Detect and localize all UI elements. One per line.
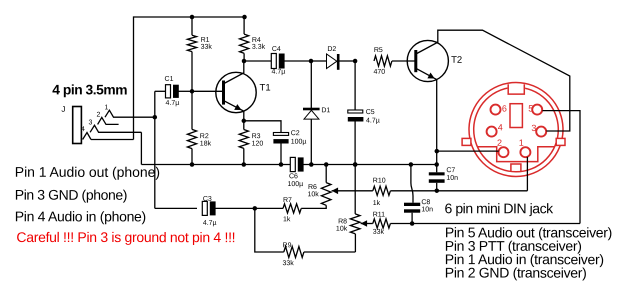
svg-text:C6: C6 bbox=[289, 173, 298, 180]
svg-text:R10: R10 bbox=[373, 178, 386, 185]
svg-text:120: 120 bbox=[252, 141, 264, 148]
svg-text:D1: D1 bbox=[321, 107, 330, 114]
svg-text:R5: R5 bbox=[374, 47, 383, 54]
svg-text:4.7µ: 4.7µ bbox=[366, 118, 380, 125]
svg-text:R9: R9 bbox=[283, 242, 292, 249]
svg-text:Careful !!! Pin 3 is ground no: Careful !!! Pin 3 is ground not pin 4 !!… bbox=[16, 229, 235, 245]
svg-text:Pin 1 Audio out (phone): Pin 1 Audio out (phone) bbox=[15, 164, 160, 180]
svg-text:J: J bbox=[61, 105, 65, 114]
svg-text:100µ: 100µ bbox=[287, 181, 303, 188]
svg-text:4: 4 bbox=[81, 126, 85, 133]
svg-text:1: 1 bbox=[105, 104, 109, 111]
svg-text:C8: C8 bbox=[421, 199, 430, 206]
svg-text:1: 1 bbox=[519, 138, 524, 148]
svg-text:Pin 3 GND (phone): Pin 3 GND (phone) bbox=[15, 187, 127, 203]
svg-text:1k: 1k bbox=[283, 216, 291, 223]
svg-text:33k: 33k bbox=[373, 229, 385, 236]
svg-text:Pin 2 GND (transceiver): Pin 2 GND (transceiver) bbox=[445, 265, 587, 281]
svg-text:T1: T1 bbox=[260, 82, 271, 93]
svg-text:10n: 10n bbox=[421, 206, 433, 213]
svg-text:C2: C2 bbox=[291, 130, 300, 137]
svg-text:2: 2 bbox=[97, 112, 101, 119]
svg-text:33k: 33k bbox=[201, 44, 213, 51]
svg-text:R11: R11 bbox=[373, 211, 385, 218]
svg-text:6 pin mini DIN jack: 6 pin mini DIN jack bbox=[445, 200, 555, 216]
svg-text:D2: D2 bbox=[327, 46, 336, 53]
svg-text:1k: 1k bbox=[373, 200, 381, 207]
svg-text:3: 3 bbox=[89, 119, 93, 126]
svg-text:C3: C3 bbox=[203, 196, 212, 203]
svg-text:18k: 18k bbox=[200, 141, 212, 148]
svg-text:4.7µ: 4.7µ bbox=[203, 220, 217, 227]
svg-text:6: 6 bbox=[502, 103, 507, 113]
svg-text:R3: R3 bbox=[252, 133, 261, 140]
svg-text:5: 5 bbox=[528, 103, 533, 113]
svg-text:3.3k: 3.3k bbox=[252, 44, 266, 51]
svg-text:10k: 10k bbox=[336, 226, 348, 233]
svg-text:R7: R7 bbox=[283, 197, 292, 204]
svg-text:4: 4 bbox=[498, 122, 503, 132]
svg-text:33k: 33k bbox=[283, 260, 295, 267]
svg-text:2: 2 bbox=[497, 138, 502, 148]
svg-text:4.7µ: 4.7µ bbox=[272, 69, 286, 76]
svg-text:R2: R2 bbox=[200, 133, 209, 140]
svg-text:3: 3 bbox=[531, 123, 536, 133]
svg-text:Pin 4 Audio in (phone): Pin 4 Audio in (phone) bbox=[15, 208, 146, 224]
svg-text:C5: C5 bbox=[366, 109, 375, 116]
svg-text:470: 470 bbox=[373, 69, 385, 76]
svg-text:C1: C1 bbox=[165, 76, 174, 83]
svg-text:10n: 10n bbox=[446, 175, 458, 182]
svg-text:T2: T2 bbox=[451, 55, 462, 66]
svg-text:C4: C4 bbox=[272, 46, 281, 53]
svg-text:R6: R6 bbox=[308, 184, 317, 191]
svg-text:R8: R8 bbox=[338, 218, 347, 225]
svg-text:4 pin 3.5mm: 4 pin 3.5mm bbox=[52, 82, 127, 97]
svg-text:10k: 10k bbox=[307, 191, 319, 198]
svg-text:C7: C7 bbox=[446, 167, 455, 174]
svg-text:4.7µ: 4.7µ bbox=[166, 100, 180, 107]
svg-text:100µ: 100µ bbox=[291, 139, 307, 146]
